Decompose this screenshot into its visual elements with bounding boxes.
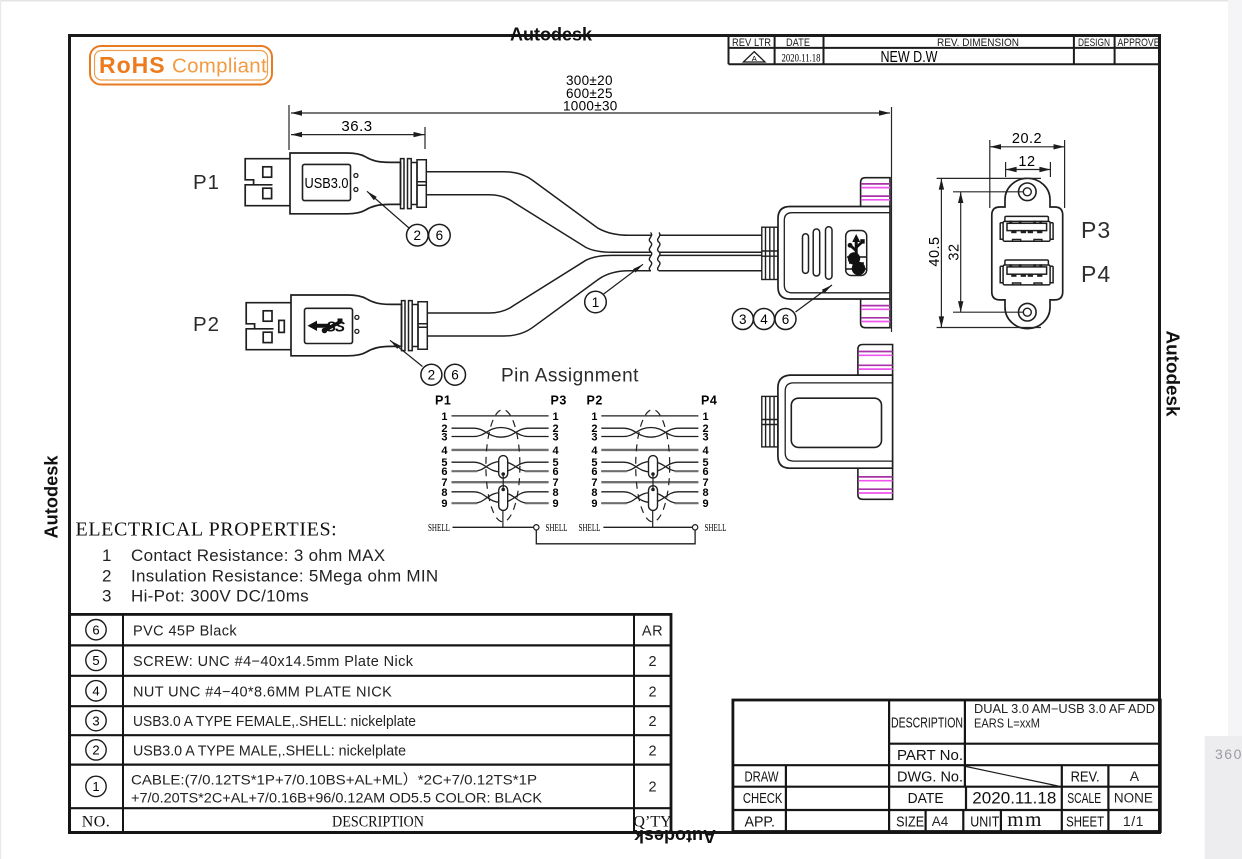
svg-text:PART No.: PART No. <box>897 748 963 764</box>
pin diagram 1: pin numbers right <box>553 411 560 510</box>
svg-text:2: 2 <box>648 780 656 796</box>
svg-text:P3: P3 <box>551 394 567 408</box>
svg-text:Insulation Resistance: 5Mega o: Insulation Resistance: 5Mega ohm MIN <box>131 567 439 586</box>
svg-text:1: 1 <box>592 295 600 310</box>
pin diagram 2: pair shield capsule 5-6 <box>649 456 658 479</box>
receptacle rear view: rectangular cutout <box>791 398 881 447</box>
dimension 32 <box>953 192 1024 312</box>
svg-text:CHECK: CHECK <box>743 791 783 807</box>
svg-text:3: 3 <box>739 312 747 327</box>
svg-text:3: 3 <box>102 587 111 606</box>
svg-text:2: 2 <box>102 567 111 586</box>
svg-text:DESCRIPTION: DESCRIPTION <box>332 814 424 831</box>
svg-text:PVC 45P Black: PVC 45P Black <box>133 623 237 639</box>
wire P2 cable top line <box>427 255 651 313</box>
screenshot artifact: right grey strip <box>1228 0 1242 859</box>
dimension line overall length <box>289 105 892 178</box>
connector P1 overmold body <box>290 153 401 214</box>
svg-text:32: 32 <box>947 243 963 260</box>
revision table headers <box>732 37 1160 49</box>
svg-text:mm: mm <box>1007 807 1043 831</box>
svg-text:SHELL: SHELL <box>546 523 568 534</box>
pin diagram 1: wires <box>452 416 549 503</box>
title block diagonal in DWG No. cell <box>966 767 1058 787</box>
svg-text:4: 4 <box>760 312 768 327</box>
wire P1 cable top line <box>426 172 651 236</box>
hatch lines top ear <box>861 184 890 200</box>
svg-text:3: 3 <box>553 432 559 444</box>
svg-text:Autodesk: Autodesk <box>510 25 593 45</box>
svg-text:DATE: DATE <box>786 37 810 49</box>
revision table top right <box>729 37 1160 65</box>
svg-text:8: 8 <box>703 487 709 499</box>
svg-text:40.5: 40.5 <box>927 236 943 266</box>
RoHS Compliant logo inner border <box>95 51 268 81</box>
pin diagram 2: shield riser <box>652 510 654 527</box>
svg-text:2: 2 <box>414 228 422 243</box>
svg-text:P2: P2 <box>587 394 603 408</box>
svg-text:9: 9 <box>591 498 597 510</box>
svg-text:4: 4 <box>591 445 598 457</box>
svg-text:+7/0.20TS*2C+AL+7/0.16B+96/0.1: +7/0.20TS*2C+AL+7/0.16B+96/0.12AM OD5.5 … <box>131 790 543 806</box>
svg-text:Hi-Pot: 300V DC/10ms: Hi-Pot: 300V DC/10ms <box>131 587 309 606</box>
svg-text:Compliant: Compliant <box>172 55 267 78</box>
callout leader 3 4 6 <box>796 285 833 312</box>
pin diagram 1: shield riser <box>502 510 504 527</box>
svg-text:SS: SS <box>326 319 345 336</box>
svg-text:360E: 360E <box>1215 746 1242 762</box>
svg-text:Autodesk: Autodesk <box>1163 331 1183 418</box>
callout leader P1 <box>367 191 409 228</box>
receptacle rear view: inner lip <box>785 383 892 461</box>
svg-text:3: 3 <box>441 432 447 444</box>
BOM balloon 5 <box>86 650 106 670</box>
receptacle rear view: bottom ear with hatch <box>858 469 893 500</box>
receptacle side view: bottom mounting ear with hatch <box>861 299 890 328</box>
svg-text:SHELL: SHELL <box>579 523 601 534</box>
receptacle side view: usb trident logo <box>846 234 867 275</box>
front view: mounting plate body <box>992 178 1063 328</box>
connector P2 strain relief rings <box>402 301 428 351</box>
svg-text:SCALE: SCALE <box>1067 791 1101 807</box>
shell bus wire connecting both diagrams <box>536 530 695 544</box>
svg-text:1: 1 <box>553 411 559 423</box>
svg-text:8: 8 <box>441 487 447 499</box>
receptacle side view: top mounting ear with hatch <box>861 178 890 207</box>
pin diagram 1: pair shield capsule 8-9 <box>499 486 508 511</box>
balloon 6 <box>775 309 796 330</box>
RoHS Compliant logo outer border <box>90 46 272 85</box>
front view: USB socket P3 <box>1000 216 1053 241</box>
dimension 36.3 <box>291 127 425 149</box>
svg-text:1: 1 <box>591 411 597 423</box>
svg-text:AR: AR <box>642 623 663 639</box>
connector P1 strain relief rings <box>401 159 427 209</box>
receptacle side view: vent slot 3 <box>826 227 833 279</box>
svg-text:A: A <box>752 54 757 63</box>
svg-text:Autodesk: Autodesk <box>42 455 62 539</box>
svg-text:SHEET: SHEET <box>1066 815 1104 831</box>
dimension labels 300/600/1000 <box>563 73 618 114</box>
svg-text:6: 6 <box>92 622 99 637</box>
connector P2 mold dots <box>355 315 359 319</box>
svg-text:3: 3 <box>591 432 597 444</box>
svg-text:Contact Resistance: 3 ohm MAX: Contact Resistance: 3 ohm MAX <box>131 546 385 565</box>
svg-text:36.3: 36.3 <box>341 118 372 135</box>
svg-text:APPROVE: APPROVE <box>1118 37 1160 49</box>
svg-text:4: 4 <box>92 684 99 699</box>
svg-text:DATE: DATE <box>908 791 944 807</box>
wire P1 cable bottom line <box>426 195 651 253</box>
connector P1 metal shell <box>245 159 290 206</box>
svg-text:EARS L=xxM: EARS L=xxM <box>974 717 1040 731</box>
svg-text:8: 8 <box>591 487 597 499</box>
svg-text:9: 9 <box>441 498 447 510</box>
svg-text:6: 6 <box>782 312 790 327</box>
svg-text:6: 6 <box>451 368 459 383</box>
connector P1 mold dots <box>354 174 358 178</box>
svg-text:DESIGN: DESIGN <box>1078 37 1110 49</box>
pin diagram 1: pin numbers left <box>441 411 448 510</box>
receptacle rear view: top ear with hatch <box>858 345 893 376</box>
pin diagram 2: drain dots and link <box>651 472 655 476</box>
svg-text:USB3.0 A TYPE FEMALE,.SHELL: USB3.0 A TYPE FEMALE,.SHELL: nickelplate <box>133 714 416 730</box>
svg-text:NONE: NONE <box>1114 791 1153 806</box>
svg-text:USB3.0 A TYPE MALE,.SHELL:: USB3.0 A TYPE MALE,.SHELL: nickelplate <box>133 744 406 760</box>
wire trunk lines after break <box>659 235 762 271</box>
svg-text:12: 12 <box>1018 154 1035 170</box>
screenshot artifact: left grey hairline <box>0 0 1 859</box>
BOM balloon 1 <box>86 776 106 796</box>
receptacle rear view: neck <box>762 396 778 447</box>
pin diagram 2: pin numbers left <box>591 411 598 510</box>
receptacle side view: vent slot 2 <box>813 229 820 276</box>
balloon 2 at P1 <box>407 224 429 246</box>
connector P2 superspeed usb logo <box>308 319 343 334</box>
callout leader 1 <box>603 264 643 294</box>
screenshot artifact: bottom-right grey panel <box>1205 736 1242 859</box>
svg-text:1/1: 1/1 <box>1123 813 1144 829</box>
svg-text:1: 1 <box>441 411 447 423</box>
svg-text:3: 3 <box>703 432 709 444</box>
dimension 12 <box>1006 162 1051 177</box>
dimension 20.2 <box>990 140 1065 208</box>
svg-text:2020.11.18: 2020.11.18 <box>782 51 821 65</box>
receptacle rear view: body <box>778 375 893 468</box>
svg-text:SCREW: UNC #4−40x14.5mm Pla: SCREW: UNC #4−40x14.5mm Plate Nick <box>133 654 414 670</box>
balloon 4 <box>754 309 775 330</box>
svg-text:1: 1 <box>92 779 99 794</box>
svg-text:REV. DIMENSION: REV. DIMENSION <box>937 37 1019 49</box>
svg-text:P1: P1 <box>193 171 220 194</box>
pin diagram 1: overall shield dashed ellipse <box>486 410 520 522</box>
receptacle side view: usb logo box <box>846 231 867 276</box>
dimension 40.5 <box>937 178 1041 327</box>
svg-text:A: A <box>1130 768 1140 784</box>
svg-text:4: 4 <box>553 445 560 457</box>
svg-text:2: 2 <box>648 744 656 760</box>
BOM balloon 4 <box>86 681 106 701</box>
balloon 6 at P1 <box>429 224 451 246</box>
screenshot artifact: top grey hairline <box>0 0 1242 2</box>
balloon 6 at P2 <box>445 364 466 385</box>
receptacle side view: vent slot 1 <box>803 234 809 274</box>
svg-text:5: 5 <box>92 653 99 668</box>
receptacle side view: strain relief neck <box>762 227 778 279</box>
svg-text:SIZE: SIZE <box>896 815 924 831</box>
svg-text:P1: P1 <box>435 394 451 408</box>
svg-text:ELECTRICAL PROPERTIES:: ELECTRICAL PROPERTIES: <box>76 519 338 541</box>
pin diagram 1: drain dots and link <box>501 472 505 476</box>
svg-text:A4: A4 <box>932 814 949 829</box>
svg-text:Pin Assignment: Pin Assignment <box>501 366 639 387</box>
BOM table grid <box>70 614 672 832</box>
pin diagram 2: pin numbers right <box>703 411 710 510</box>
svg-text:Q’TY: Q’TY <box>633 814 672 831</box>
BOM balloon 3 <box>86 710 106 730</box>
svg-text:SHELL: SHELL <box>428 523 450 534</box>
svg-text:DESCRIPTION: DESCRIPTION <box>891 716 963 732</box>
connector P2 logo box <box>305 308 353 343</box>
pin diagram 1: pair shield capsule 5-6 <box>499 456 508 479</box>
pin diagram 2: overall shield dashed ellipse <box>636 410 670 522</box>
svg-text:9: 9 <box>553 498 559 510</box>
svg-text:P2: P2 <box>193 313 220 336</box>
svg-text:2: 2 <box>648 684 656 700</box>
svg-text:P4: P4 <box>1081 261 1111 287</box>
svg-text:2: 2 <box>428 368 436 383</box>
svg-text:2: 2 <box>648 654 656 670</box>
connector P2 overmold body <box>291 295 402 356</box>
svg-text:2020.11.18: 2020.11.18 <box>972 790 1056 808</box>
svg-text:2: 2 <box>648 714 656 730</box>
extension line through receptacle right edge <box>891 178 893 332</box>
front view: bottom screw hole <box>1019 303 1037 321</box>
BOM balloon 6 <box>86 620 106 640</box>
balloon 1 <box>585 291 607 313</box>
BOM balloon 2 <box>86 740 106 760</box>
svg-text:4: 4 <box>441 445 448 457</box>
svg-text:1: 1 <box>703 411 709 423</box>
svg-text:9: 9 <box>703 498 709 510</box>
callout leader P2 <box>390 340 423 366</box>
svg-text:CABLE:(7/0.12TS*1P+7/0.10BS+AL: CABLE:(7/0.12TS*1P+7/0.10BS+AL+ML）*2C+7/… <box>131 772 537 788</box>
connector P1 label box USB3.0 <box>303 164 351 200</box>
balloon 2 at P2 <box>421 364 442 385</box>
svg-text:SHELL: SHELL <box>705 523 727 534</box>
receptacle side view: inner lip <box>784 213 890 293</box>
wire P2 cable bottom line <box>427 271 651 336</box>
svg-text:REV.: REV. <box>1071 770 1100 786</box>
svg-text:DUAL 3.0 AM−USB 3.0 AF AD: DUAL 3.0 AM−USB 3.0 AF ADD <box>974 702 1155 716</box>
pin diagram 2: pair shield capsule 8-9 <box>649 486 658 511</box>
svg-text:3: 3 <box>92 713 99 728</box>
svg-text:APP.: APP. <box>745 815 776 831</box>
svg-text:2: 2 <box>92 743 99 758</box>
front view: top screw hole <box>1019 183 1037 201</box>
front view: USB socket P4 <box>1000 260 1053 285</box>
svg-text:4: 4 <box>703 445 710 457</box>
svg-text:P3: P3 <box>1081 217 1111 243</box>
svg-text:NO.: NO. <box>82 814 111 831</box>
connector P2 metal shell <box>246 303 291 350</box>
svg-text:DWG. No.: DWG. No. <box>897 770 963 786</box>
svg-text:NEW D.W: NEW D.W <box>881 49 938 66</box>
svg-text:20.2: 20.2 <box>1012 131 1042 147</box>
receptacle side view: molded body <box>778 207 890 300</box>
svg-text:P4: P4 <box>701 394 717 408</box>
cable break symbol <box>649 233 660 271</box>
svg-text:UNIT: UNIT <box>970 815 999 831</box>
svg-text:1000±30: 1000±30 <box>563 99 618 114</box>
svg-text:6: 6 <box>436 228 444 243</box>
pin diagram 2: wires <box>601 416 698 503</box>
balloon 3 <box>732 309 753 330</box>
svg-text:USB3.0: USB3.0 <box>305 176 349 192</box>
title block grid <box>733 700 1160 832</box>
svg-text:RoHS: RoHS <box>99 52 166 78</box>
svg-text:NUT UNC #4−40*8.6MM PLATE: NUT UNC #4−40*8.6MM PLATE NICK <box>133 684 392 700</box>
svg-text:1: 1 <box>102 546 111 565</box>
svg-text:REV LTR: REV LTR <box>732 37 771 49</box>
svg-text:DRAW: DRAW <box>745 770 779 786</box>
svg-text:8: 8 <box>553 487 559 499</box>
revision triangle A <box>743 52 765 62</box>
